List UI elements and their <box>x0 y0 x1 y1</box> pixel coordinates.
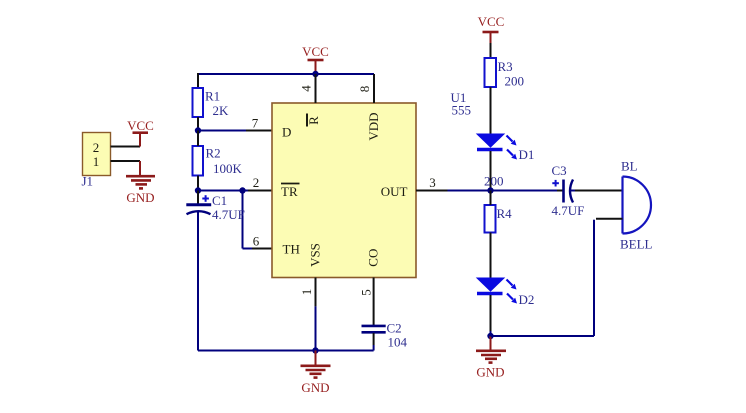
wire R4 to D2 <box>490 233 492 279</box>
svg-text:5: 5 <box>359 289 374 296</box>
wire node to pin 7 <box>198 130 272 132</box>
svg-text:VCC: VCC <box>478 14 505 29</box>
svg-text:GND: GND <box>126 190 154 205</box>
ground GND (left) <box>126 161 155 205</box>
svg-text:BL: BL <box>621 159 638 174</box>
wire to pin 6 <box>243 248 273 250</box>
LED D1 <box>477 134 517 160</box>
capacitor C3 <box>552 180 573 203</box>
svg-text:TR: TR <box>281 184 298 199</box>
svg-text:C1: C1 <box>212 193 227 208</box>
wire pin 8 <box>373 74 375 103</box>
svg-text:200: 200 <box>484 174 504 189</box>
svg-text:2: 2 <box>253 175 260 190</box>
wire pin 3 OUT <box>416 190 563 192</box>
pin name R (active low) <box>306 114 321 127</box>
ground GND (center) <box>301 351 331 396</box>
svg-text:4.7UF: 4.7UF <box>212 207 245 222</box>
junction ground node right <box>487 333 493 339</box>
power VCC (left) <box>127 118 154 147</box>
svg-text:104: 104 <box>388 335 408 350</box>
svg-text:1: 1 <box>93 154 100 169</box>
power VCC (right) <box>478 14 505 43</box>
svg-text:OUT: OUT <box>381 184 408 199</box>
svg-text:R1: R1 <box>205 89 220 104</box>
svg-text:VSS: VSS <box>308 243 323 267</box>
power VCC (top center) <box>302 44 329 74</box>
svg-text:200: 200 <box>505 74 525 89</box>
wire bell to ground node <box>491 219 623 336</box>
wire pin 1 to ground bus <box>315 278 317 351</box>
svg-text:4: 4 <box>299 85 314 92</box>
capacitor C1 <box>186 191 211 215</box>
svg-text:4.7UF: 4.7UF <box>552 203 585 218</box>
svg-text:D: D <box>282 125 291 140</box>
ground GND (right) <box>476 336 506 380</box>
svg-text:100K: 100K <box>213 161 243 176</box>
junction OUT node <box>487 187 493 193</box>
junction at VCC rail / pin 4 <box>312 71 318 77</box>
wire R2 bottom to node TR <box>197 176 199 191</box>
svg-text:TH: TH <box>283 242 300 257</box>
svg-text:R2: R2 <box>206 146 221 161</box>
resistor R2 <box>193 146 204 176</box>
svg-text:6: 6 <box>253 234 260 249</box>
wire R1 bottom to node <box>197 117 199 131</box>
wire C3 to bell BL <box>571 190 623 192</box>
svg-text:GND: GND <box>476 365 504 380</box>
wire D1 to OUT node <box>490 151 492 191</box>
svg-text:D1: D1 <box>519 147 535 162</box>
capacitor C2 <box>362 326 386 332</box>
resistor R3 <box>485 58 497 87</box>
svg-text:VDD: VDD <box>366 112 381 140</box>
svg-text:C2: C2 <box>387 321 402 336</box>
svg-text:555: 555 <box>452 103 472 118</box>
wire ground bus bottom <box>198 350 374 352</box>
junction ground bus <box>312 347 318 353</box>
wire VCC top rail <box>198 73 374 75</box>
wire node7 to R2 top <box>197 131 199 147</box>
wire J1 pin1 to GND <box>111 160 141 162</box>
svg-text:1: 1 <box>299 289 314 296</box>
svg-text:VCC: VCC <box>302 44 329 59</box>
junction node TR / C1 <box>195 187 201 193</box>
wire VCC to R3 <box>490 43 492 58</box>
svg-text:J1: J1 <box>82 174 94 189</box>
svg-text:2: 2 <box>93 140 100 155</box>
resistor R4 <box>485 205 496 233</box>
wire TR to TH vertical <box>242 191 244 249</box>
wire C2 bottom to ground bus <box>373 333 375 345</box>
wire OUT node to R4 <box>490 191 492 206</box>
junction node pin 7 <box>195 127 201 133</box>
svg-text:VCC: VCC <box>127 118 154 133</box>
bell BL <box>623 177 652 234</box>
wire D2 to ground node <box>490 295 492 336</box>
svg-text:BELL: BELL <box>620 237 653 252</box>
pin name TR (active low) <box>281 184 300 200</box>
wire node to pin 2 <box>198 190 272 192</box>
svg-text:R4: R4 <box>497 206 513 221</box>
wire left bus R1 top <box>197 73 199 88</box>
svg-text:R: R <box>306 116 321 125</box>
wire J1 pin2 to VCC <box>111 146 141 148</box>
wire C1 bottom to ground bus <box>197 212 199 351</box>
LED D2 <box>477 278 517 304</box>
wire pin 5 to C2 <box>373 278 375 326</box>
svg-text:CO: CO <box>366 249 381 267</box>
resistor R1 <box>193 88 204 117</box>
connector J1 <box>83 133 111 176</box>
svg-text:C3: C3 <box>552 163 567 178</box>
wire R3 to D1 <box>490 87 492 134</box>
wire pin 4 <box>315 74 317 103</box>
svg-text:GND: GND <box>301 380 329 395</box>
svg-text:3: 3 <box>429 175 436 190</box>
svg-text:R3: R3 <box>498 59 513 74</box>
junction TR/TH tie <box>239 187 245 193</box>
svg-text:D2: D2 <box>519 292 535 307</box>
svg-text:7: 7 <box>252 116 259 131</box>
svg-text:8: 8 <box>357 86 372 93</box>
svg-text:2K: 2K <box>213 103 230 118</box>
IC U1 555 timer body <box>272 103 416 278</box>
